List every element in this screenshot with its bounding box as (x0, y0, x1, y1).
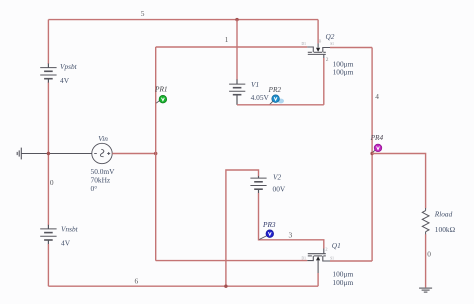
svg-text:4.05V: 4.05V (251, 93, 270, 102)
MOSFET Q1 (302, 246, 335, 286)
battery V2 (250, 176, 266, 193)
svg-text:Q2: Q2 (326, 32, 335, 41)
svg-text:4V: 4V (60, 76, 70, 85)
wire net 3 (V2 to Q1 gate) (259, 193, 324, 249)
resistor Rload (422, 208, 429, 235)
ground (bottom right) (419, 288, 432, 292)
wire net 5 top rail (48, 19, 318, 21)
probe PR4 (374, 144, 382, 152)
svg-text:S1: S1 (330, 257, 334, 261)
svg-text:6: 6 (135, 277, 139, 286)
wire left column lower (Vin row to Vnsbt) (47, 154, 49, 226)
junction at (225.9,286.2) (224, 285, 227, 288)
Q2 channel dashes (308, 51, 326, 53)
svg-text:1: 1 (225, 35, 229, 44)
probe PR4 needle (372, 150, 375, 153)
Q2 source pin stub (323, 48, 330, 53)
svg-text:100kΩ: 100kΩ (435, 225, 456, 234)
wire net 1 vertical (155, 47, 157, 261)
wire V2 top to bottom rail branch (226, 170, 259, 286)
probe PR2 shadow (278, 99, 284, 104)
ground (left, at Vin) (17, 148, 21, 160)
svg-text:100μm: 100μm (332, 278, 353, 287)
wire ground to Vin (21, 153, 91, 155)
wire net 2 (V1 to Q2 gate) horizontal (237, 104, 324, 106)
Q1 channel dashes (308, 255, 326, 257)
wire Vin to node 1 column (112, 153, 156, 155)
wire net 4 vertical (371, 48, 373, 262)
svg-text:PR3: PR3 (262, 220, 276, 229)
probe PR2 (272, 95, 280, 103)
junction at (372.1,153.5) (370, 152, 373, 155)
Q2 gate pin stub (307, 47, 313, 52)
wire net 2 vertical to Q2 gate plate (323, 58, 325, 105)
svg-text:3: 3 (289, 231, 293, 240)
wire net 1 horizontal to Q2 gate side (156, 46, 308, 48)
wire net 6 bottom rail (48, 285, 318, 287)
svg-text:0: 0 (427, 249, 431, 258)
svg-text:2: 2 (326, 57, 329, 63)
probe PR1 (159, 95, 167, 103)
junction at (237,19.6) (235, 18, 238, 21)
battery V1 (229, 79, 245, 104)
junction at (48.4,153.5) (47, 152, 50, 155)
probe PR3 (266, 230, 274, 238)
wire left column upper (top rail to Vpsbt) (47, 20, 49, 64)
Q1 gate plate pin up (323, 249, 325, 254)
svg-text:PR4: PR4 (370, 133, 384, 142)
svg-text:PR1: PR1 (154, 85, 168, 94)
wire Rload to ground (425, 234, 427, 287)
svg-text:PR2: PR2 (268, 85, 282, 94)
probe PR2 needle (270, 101, 273, 104)
svg-text:4V: 4V (61, 238, 71, 247)
Q2 gate plate (308, 53, 326, 55)
battery Vpsbt (40, 64, 56, 84)
Q1 source pin stub right (323, 256, 330, 261)
Q2 gate plate pin down (323, 54, 325, 58)
probe PR3 needle (259, 236, 266, 240)
svg-text:00V: 00V (273, 184, 286, 193)
junction at (155.7,153.5) (154, 152, 157, 155)
wire top rail to V1 (236, 20, 238, 80)
Q1 body arrow (316, 256, 320, 260)
wire net 4 branch to Rload (372, 154, 426, 209)
svg-text:Rload: Rload (434, 209, 453, 218)
Q2 body wire from top rail (317, 20, 319, 44)
svg-text:0°: 0° (91, 184, 98, 193)
svg-text:Vin: Vin (98, 134, 108, 143)
probe PR1 needle (156, 100, 160, 103)
battery Vnsbt (40, 225, 56, 245)
svg-text:Q1: Q1 (332, 241, 341, 250)
svg-text:5: 5 (141, 9, 145, 18)
wire left column middle (Vpsbt to Vin row) (47, 83, 49, 154)
wire net 1 to Q1 left (156, 260, 308, 262)
wire net 4 from Q1 source (330, 260, 372, 262)
svg-text:Vnsbt: Vnsbt (61, 225, 79, 234)
svg-text:100μm: 100μm (333, 68, 354, 77)
svg-text:S1: S1 (330, 42, 334, 46)
Q2 body arrow (316, 48, 320, 52)
wire net 4 from Q2 source (330, 47, 372, 49)
svg-text:4: 4 (375, 92, 379, 101)
Q1 gate plate (308, 253, 326, 255)
AC source Vin (92, 143, 112, 163)
svg-text:D1: D1 (302, 42, 307, 46)
MOSFET Q2 (302, 20, 335, 58)
svg-text:V1: V1 (251, 80, 259, 89)
svg-text:Vpsbt: Vpsbt (60, 62, 78, 71)
Q1 body wire to bottom rail (317, 260, 319, 273)
svg-text:0: 0 (50, 178, 54, 187)
wire left column bottom (Vnsbt to bottom rail) (47, 244, 49, 286)
Q1 left pin stub (307, 256, 313, 261)
svg-text:V2: V2 (273, 172, 281, 181)
